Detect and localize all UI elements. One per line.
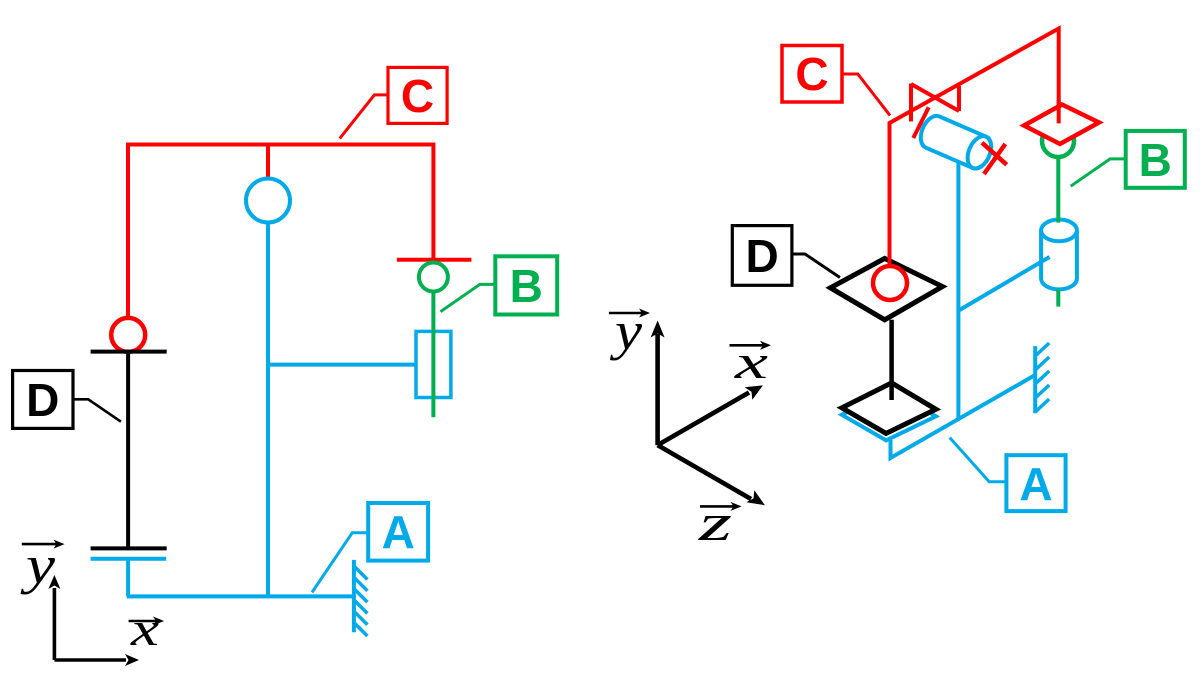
svg-text:B: B bbox=[1139, 134, 1172, 186]
svg-text:D: D bbox=[745, 230, 778, 282]
svg-text:C: C bbox=[795, 48, 828, 100]
svg-text:D: D bbox=[26, 374, 59, 426]
svg-text:x: x bbox=[130, 603, 159, 656]
svg-text:A: A bbox=[1019, 458, 1052, 510]
svg-text:x: x bbox=[733, 336, 768, 389]
svg-text:A: A bbox=[382, 506, 415, 558]
svg-text:y: y bbox=[20, 535, 55, 595]
svg-text:C: C bbox=[401, 70, 434, 122]
svg-text:y: y bbox=[609, 301, 642, 361]
svg-text:z: z bbox=[697, 495, 732, 552]
svg-text:B: B bbox=[510, 260, 543, 312]
